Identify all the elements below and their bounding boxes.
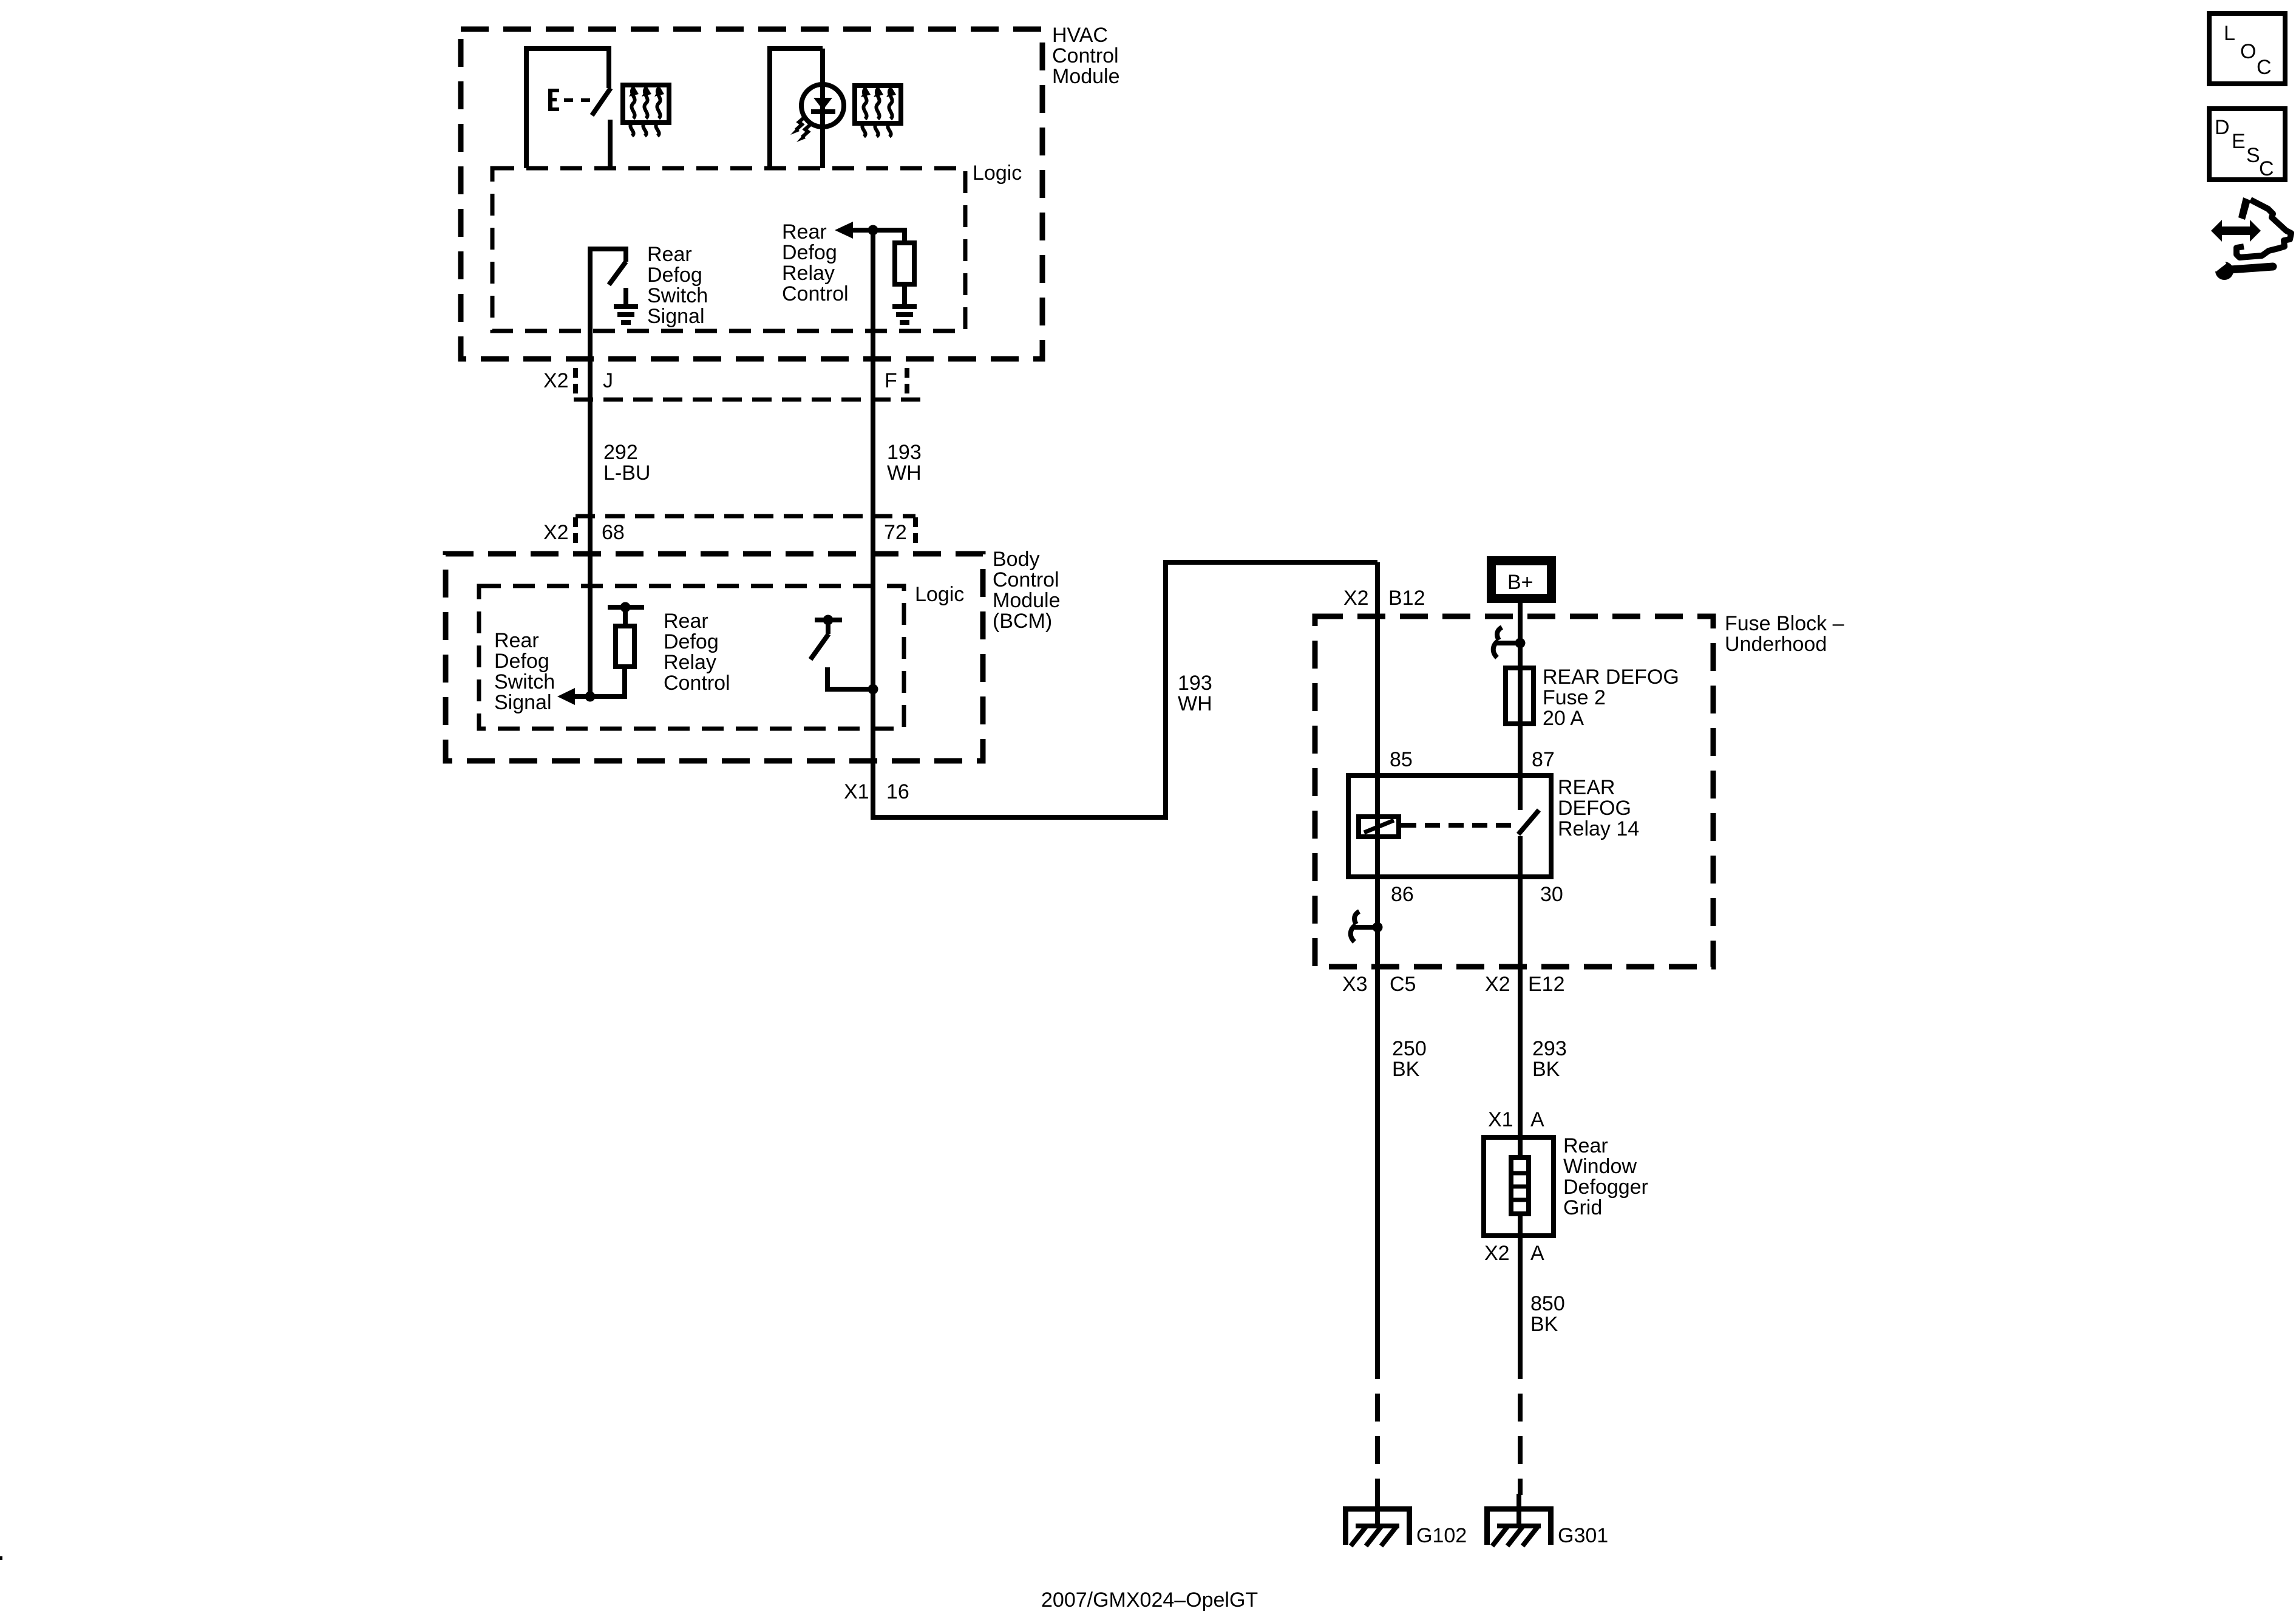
signal ground (S2) xyxy=(614,307,638,322)
heater icon 2 xyxy=(855,86,901,137)
svg-text:G301: G301 xyxy=(1558,1524,1608,1547)
svg-text:X2: X2 xyxy=(1484,1242,1510,1265)
ground G301 xyxy=(1484,1494,1554,1546)
junction dot (BCM switch signal) xyxy=(585,692,596,702)
wire label 193 WH (run to fuse block) xyxy=(1178,672,1212,715)
svg-text:A: A xyxy=(1530,1242,1544,1265)
switch S2 blade xyxy=(609,262,626,285)
wire 250 (coil to ground) xyxy=(1375,562,1380,1351)
REAR DEFOG Relay 14 label xyxy=(1558,776,1639,840)
svg-text:D: D xyxy=(2215,116,2230,139)
terminal symbol (86 feed) xyxy=(1351,911,1383,942)
svg-text:Underhood: Underhood xyxy=(1725,633,1827,656)
R2 upper lead xyxy=(623,607,628,626)
svg-text:850: 850 xyxy=(1530,1292,1565,1315)
svg-text:O: O xyxy=(2240,40,2256,63)
relay coil diagonal xyxy=(1364,820,1394,833)
junction dot (R2 top) xyxy=(620,602,631,613)
relay control switch pivot dot xyxy=(823,615,834,625)
wire 193 (relay control) xyxy=(873,230,1377,817)
svg-text:Defog: Defog xyxy=(664,630,719,653)
svg-text:E: E xyxy=(2232,130,2246,153)
svg-text:Control: Control xyxy=(782,282,849,305)
wire label 292 L-BU xyxy=(603,441,650,485)
svg-text:Grid: Grid xyxy=(1563,1196,1602,1219)
Rear Defog Relay Control label (BCM) xyxy=(664,610,730,695)
svg-text:Rear: Rear xyxy=(494,629,539,652)
svg-text:C5: C5 xyxy=(1390,973,1416,996)
svg-text:Logic: Logic xyxy=(915,583,964,606)
svg-text:193: 193 xyxy=(887,441,922,464)
defog switch S1 frame xyxy=(526,49,609,168)
junction dot (HVAC relay control) xyxy=(868,225,878,236)
svg-text:L: L xyxy=(2224,22,2235,45)
svg-text:16: 16 xyxy=(886,780,909,803)
LED branch frame xyxy=(770,49,823,168)
wire B+ feed xyxy=(1518,603,1523,810)
svg-text:Fuse Block –: Fuse Block – xyxy=(1725,612,1844,635)
resistor R2 (BCM) xyxy=(616,626,634,667)
svg-text:Relay: Relay xyxy=(782,262,835,285)
svg-text:30: 30 xyxy=(1540,883,1563,906)
svg-text:Relay: Relay xyxy=(664,651,716,674)
svg-text:X1: X1 xyxy=(1488,1108,1513,1131)
switch signal output arrow xyxy=(557,688,575,705)
svg-text:Control: Control xyxy=(1052,44,1119,67)
svg-text:Switch: Switch xyxy=(647,284,708,307)
Fuse Block - Underhood box xyxy=(1315,616,1713,967)
svg-text:B+: B+ xyxy=(1507,571,1533,594)
grid heating element xyxy=(1511,1157,1529,1214)
svg-text:F: F xyxy=(885,369,897,392)
BCM label xyxy=(993,548,1061,633)
Rear Window Defogger Grid label xyxy=(1563,1134,1648,1219)
svg-text:Signal: Signal xyxy=(494,691,552,714)
Rear Window Defogger Grid box xyxy=(1484,1137,1554,1236)
svg-text:B12: B12 xyxy=(1388,587,1425,610)
svg-text:X2: X2 xyxy=(543,521,569,544)
relay control node wire xyxy=(851,230,905,243)
svg-text:C: C xyxy=(2257,56,2272,79)
svg-text:X1: X1 xyxy=(844,780,869,803)
HVAC Control Module label xyxy=(1052,24,1120,88)
svg-text:86: 86 xyxy=(1391,883,1414,906)
svg-text:REAR DEFOG: REAR DEFOG xyxy=(1543,666,1679,689)
REAR DEFOG Fuse 2 20 A label xyxy=(1543,666,1679,730)
HVAC Control Module box xyxy=(461,29,1042,359)
svg-text:Defog: Defog xyxy=(647,264,702,287)
svg-text:G102: G102 xyxy=(1416,1524,1467,1547)
signal ground (R1) xyxy=(892,307,917,322)
svg-text:E12: E12 xyxy=(1528,973,1565,996)
relay K14 box xyxy=(1348,775,1551,877)
svg-text:C: C xyxy=(2259,157,2274,180)
wire label 193 WH xyxy=(887,441,922,485)
service info icon xyxy=(2211,197,2291,280)
Body Control Module box xyxy=(446,554,983,761)
R2 top bar xyxy=(608,605,644,610)
logic box (HVAC) xyxy=(492,168,965,331)
switch S1 lower contact xyxy=(608,120,613,168)
svg-text:Fuse 2: Fuse 2 xyxy=(1543,686,1606,709)
svg-text:J: J xyxy=(603,369,613,392)
svg-text:(BCM): (BCM) xyxy=(993,610,1052,633)
wire 292 (switch signal) xyxy=(588,256,593,696)
B+ terminal xyxy=(1487,556,1556,603)
svg-text:BK: BK xyxy=(1532,1058,1560,1081)
R1 lower lead xyxy=(902,284,907,307)
svg-text:L-BU: L-BU xyxy=(603,461,650,485)
svg-text:Rear: Rear xyxy=(1563,1134,1608,1157)
svg-text:S: S xyxy=(2246,144,2260,167)
svg-text:292: 292 xyxy=(603,441,638,464)
relay control switch blade xyxy=(810,634,829,659)
svg-text:85: 85 xyxy=(1390,748,1413,771)
E actuator label xyxy=(548,89,590,111)
resistor R1 (HVAC) xyxy=(895,243,914,284)
svg-text:Window: Window xyxy=(1563,1155,1637,1178)
ground G102 xyxy=(1343,1494,1412,1546)
switch S1 blade xyxy=(592,88,611,115)
svg-text:68: 68 xyxy=(602,521,625,544)
svg-text:REAR: REAR xyxy=(1558,776,1615,799)
svg-text:WH: WH xyxy=(887,461,922,485)
logic box (BCM) xyxy=(479,586,904,729)
stray mark (left margin artifact) xyxy=(0,1556,2,1560)
svg-text:Rear: Rear xyxy=(647,243,692,266)
LED cathode bar xyxy=(811,109,835,114)
LED wire xyxy=(820,49,825,168)
svg-text:Body: Body xyxy=(993,548,1040,571)
svg-text:Rear: Rear xyxy=(782,220,827,243)
svg-text:Defogger: Defogger xyxy=(1563,1176,1648,1199)
svg-text:193: 193 xyxy=(1178,672,1212,695)
svg-text:2007/GMX024–OpelGT: 2007/GMX024–OpelGT xyxy=(1041,1588,1258,1612)
switch signal node wire xyxy=(574,667,625,696)
wire 850 dashed section xyxy=(1518,1351,1523,1495)
svg-text:Control: Control xyxy=(993,568,1059,591)
wire label 850 BK xyxy=(1530,1292,1565,1336)
wire label 250 BK xyxy=(1392,1037,1427,1081)
svg-text:X2: X2 xyxy=(543,369,569,392)
svg-text:X2: X2 xyxy=(1343,587,1369,610)
svg-text:Signal: Signal xyxy=(647,305,705,328)
svg-text:BK: BK xyxy=(1392,1058,1420,1081)
svg-text:20 A: 20 A xyxy=(1543,707,1584,730)
svg-text:WH: WH xyxy=(1178,692,1212,715)
svg-text:Relay 14: Relay 14 xyxy=(1558,817,1639,840)
X2 connector row (HVAC) bottom edge xyxy=(574,398,920,402)
svg-text:Module: Module xyxy=(1052,65,1120,88)
svg-text:Logic: Logic xyxy=(973,162,1022,185)
relay control arrow xyxy=(835,222,853,239)
svg-text:A: A xyxy=(1530,1108,1544,1131)
svg-text:72: 72 xyxy=(884,521,907,544)
svg-text:X3: X3 xyxy=(1342,973,1368,996)
relay control switch output wire xyxy=(827,667,873,689)
svg-text:Defog: Defog xyxy=(494,650,549,673)
junction dot (BCM relay control) xyxy=(868,684,878,695)
Fuse Block label xyxy=(1725,612,1844,656)
switch S2 ground stub xyxy=(623,288,628,307)
LED indicator circle xyxy=(801,84,844,127)
fuse F2 REAR DEFOG 20A xyxy=(1506,668,1533,724)
LED emission arrows xyxy=(790,118,810,142)
X2 connector row (BCM) top edge xyxy=(576,514,915,519)
svg-text:Rear: Rear xyxy=(664,610,708,633)
svg-text:BK: BK xyxy=(1530,1313,1558,1336)
Rear Defog Switch Signal label (HVAC) xyxy=(647,243,708,328)
LED triangle xyxy=(813,98,832,110)
svg-text:87: 87 xyxy=(1532,748,1555,771)
svg-text:Switch: Switch xyxy=(494,670,555,693)
Rear Defog Switch Signal label (BCM) xyxy=(494,629,555,714)
svg-text:Module: Module xyxy=(993,589,1061,612)
DESC icon xyxy=(2209,109,2285,180)
svg-text:293: 293 xyxy=(1532,1037,1567,1060)
svg-text:Defog: Defog xyxy=(782,241,837,264)
svg-text:X2: X2 xyxy=(1485,973,1510,996)
wire 293/850 (relay 30 to grid to ground) xyxy=(1518,836,1523,1351)
svg-text:HVAC: HVAC xyxy=(1052,24,1108,47)
heater icon 1 xyxy=(623,85,669,136)
LOC icon xyxy=(2209,13,2285,84)
wire 250 dashed section xyxy=(1375,1351,1380,1495)
terminal symbol (B+ feed) xyxy=(1493,627,1526,658)
Rear Defog Relay Control label (HVAC) xyxy=(782,220,849,305)
svg-text:DEFOG: DEFOG xyxy=(1558,797,1631,820)
relay control switch stub xyxy=(826,620,830,634)
svg-text:250: 250 xyxy=(1392,1037,1427,1060)
svg-text:Control: Control xyxy=(664,672,730,695)
relay switch blade xyxy=(1518,810,1539,834)
X2 connector row (BCM) separators xyxy=(576,517,915,545)
rear defog switch S2 frame xyxy=(590,249,626,331)
wire label 293 BK xyxy=(1532,1037,1567,1081)
relay control switch top bar (BCM) xyxy=(815,618,842,622)
relay coil K14 xyxy=(1359,817,1399,837)
relay actuation dashed link xyxy=(1401,823,1515,828)
X2 connector row (HVAC) separators xyxy=(576,368,907,396)
